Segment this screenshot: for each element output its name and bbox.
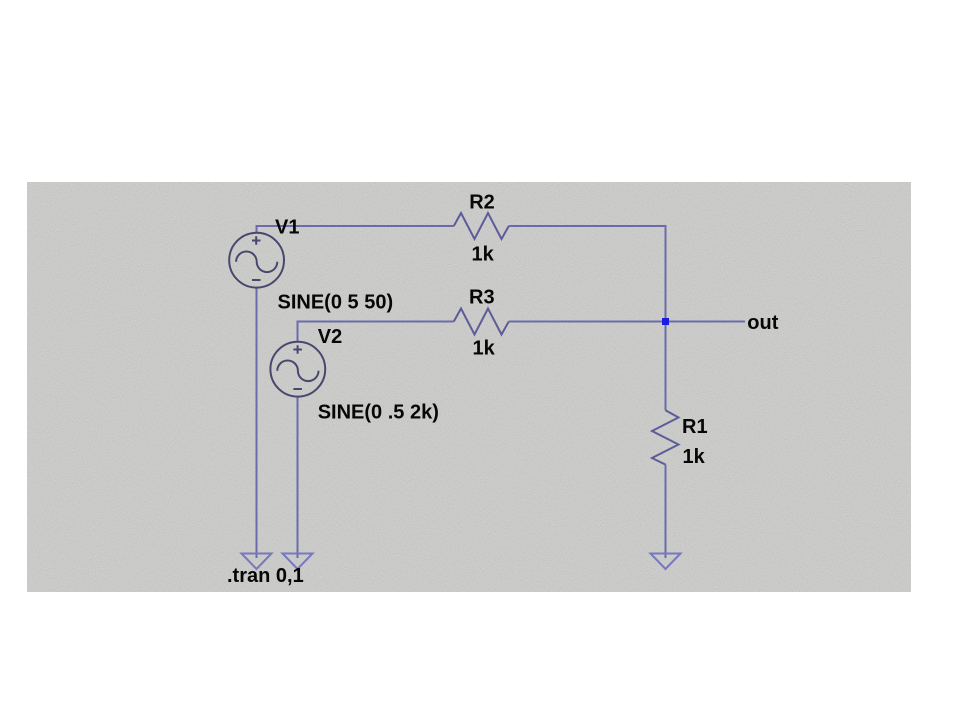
svg-text:1k: 1k: [473, 338, 496, 360]
svg-text:SINE(0 .5 2k): SINE(0 .5 2k): [318, 402, 439, 424]
svg-text:R1: R1: [682, 416, 708, 438]
svg-text:V2: V2: [318, 326, 342, 348]
svg-text:R2: R2: [469, 192, 495, 214]
svg-text:.tran 0,1: .tran 0,1: [227, 565, 304, 587]
svg-text:R3: R3: [469, 287, 495, 309]
svg-text:SINE(0 5 50): SINE(0 5 50): [278, 291, 394, 313]
svg-text:1k: 1k: [472, 244, 495, 266]
svg-text:1k: 1k: [683, 446, 706, 468]
svg-text:out: out: [747, 312, 778, 334]
svg-text:V1: V1: [275, 216, 299, 238]
